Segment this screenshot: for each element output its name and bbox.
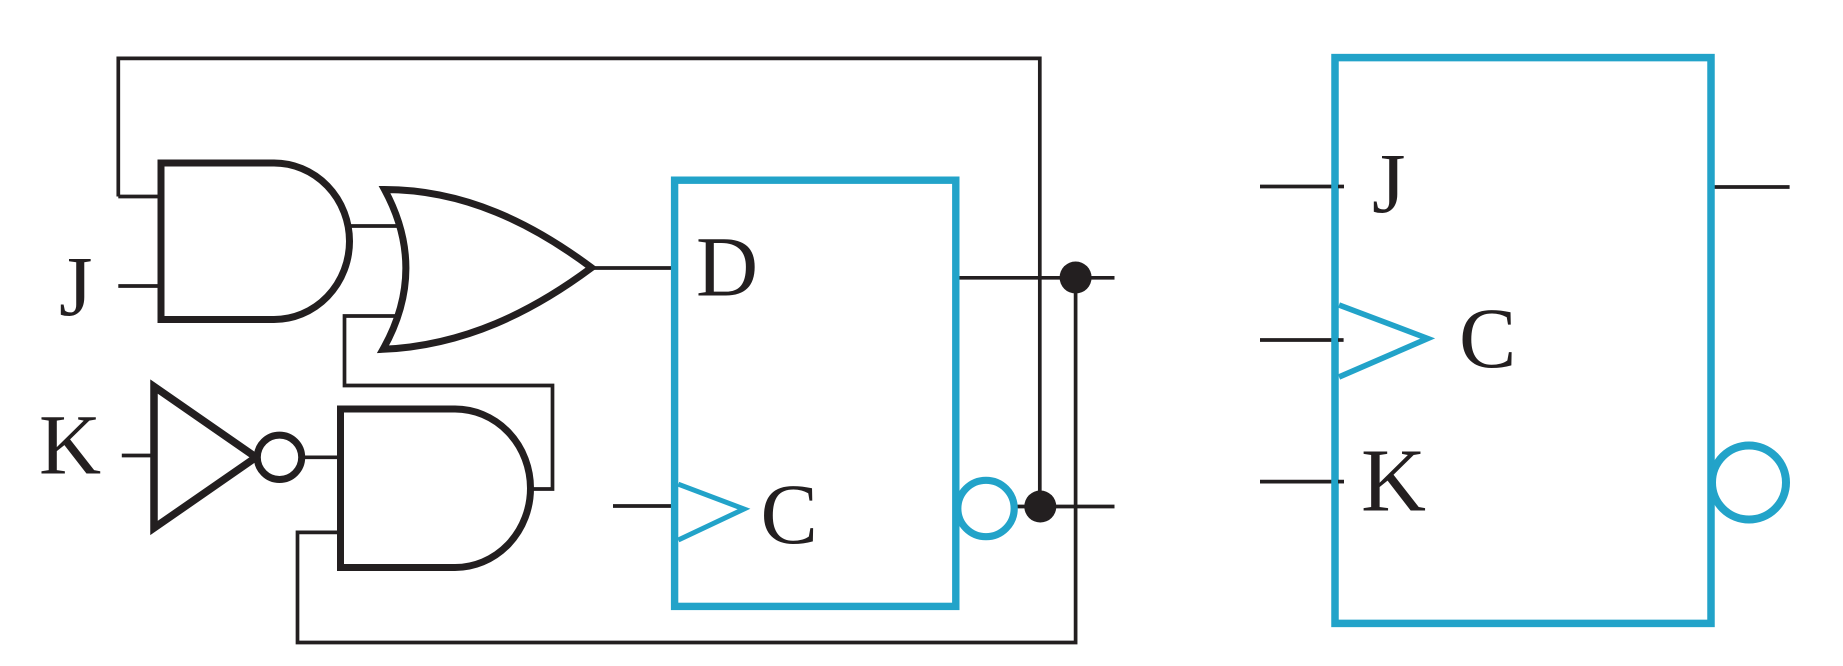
wire Q-bar output <box>1016 505 1115 509</box>
NOT gate bubble <box>257 435 301 479</box>
wire NOT output to AND2 input <box>303 455 338 459</box>
svg-text:C: C <box>1459 290 1516 386</box>
JK flip-flop Q-bar bubble <box>1712 446 1786 520</box>
wire AND1 upper input stub <box>118 195 162 199</box>
OR gate O1 <box>383 190 592 350</box>
svg-text:J: J <box>1372 135 1405 231</box>
junction dot on Q line <box>1060 262 1092 294</box>
wire nub of C input inside JK box <box>1338 338 1344 342</box>
wire clock input of D flip-flop <box>613 504 678 508</box>
svg-text:K: K <box>39 397 101 493</box>
D flip-flop Q-bar bubble <box>958 480 1014 536</box>
wire Q output <box>956 276 1115 280</box>
svg-text:D: D <box>696 219 758 315</box>
junction dot on Q-bar line <box>1024 491 1056 523</box>
wire K input <box>122 454 152 458</box>
wire top feedback from Q' to AND1 upper input <box>118 58 1040 507</box>
wire C input of JK symbol <box>1260 338 1344 342</box>
D flip-flop clock edge triangle <box>678 484 744 540</box>
svg-text:C: C <box>761 466 818 562</box>
JK flip-flop U2 box <box>1335 58 1711 624</box>
AND gate A1 (J and Q-bar) <box>161 163 350 320</box>
wire nub of J input inside JK box <box>1338 185 1344 189</box>
wire K input of JK symbol <box>1260 480 1341 484</box>
wire AND1 output to OR input <box>347 224 401 228</box>
wire J input <box>118 284 162 288</box>
D flip-flop U1 box <box>675 180 956 606</box>
wire J input of JK symbol <box>1260 185 1341 189</box>
svg-text:K: K <box>1361 432 1426 531</box>
JK flip-flop clock edge triangle <box>1339 305 1428 377</box>
wire Q output of JK symbol <box>1711 185 1790 189</box>
wire bottom feedback from Q to AND2 lower input <box>298 278 1076 643</box>
wire OR output to D <box>592 266 673 270</box>
NOT gate inverter (K input) <box>154 387 256 529</box>
wire nub of K input inside JK box <box>1338 480 1344 484</box>
svg-text:J: J <box>59 238 92 334</box>
AND gate A2 (K-bar and Q) <box>341 409 531 568</box>
wire AND2 output loop to OR lower input <box>345 316 553 489</box>
